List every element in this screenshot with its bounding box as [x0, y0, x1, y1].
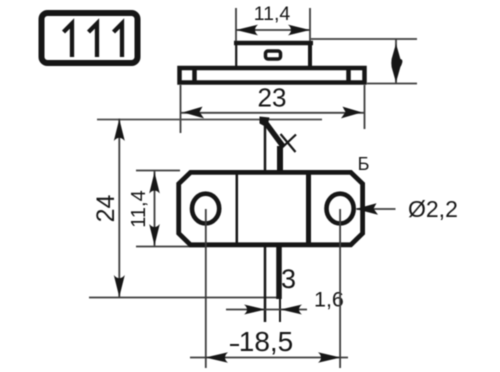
- svg-text:11,4: 11,4: [128, 190, 150, 227]
- svg-text:23: 23: [258, 83, 287, 113]
- svg-text:Ø2,2: Ø2,2: [408, 196, 458, 222]
- svg-text:3: 3: [281, 264, 296, 294]
- svg-text:24: 24: [92, 195, 120, 223]
- svg-text:18,5: 18,5: [239, 326, 294, 357]
- svg-text:Б: Б: [358, 154, 370, 174]
- svg-text:11,4: 11,4: [254, 3, 291, 25]
